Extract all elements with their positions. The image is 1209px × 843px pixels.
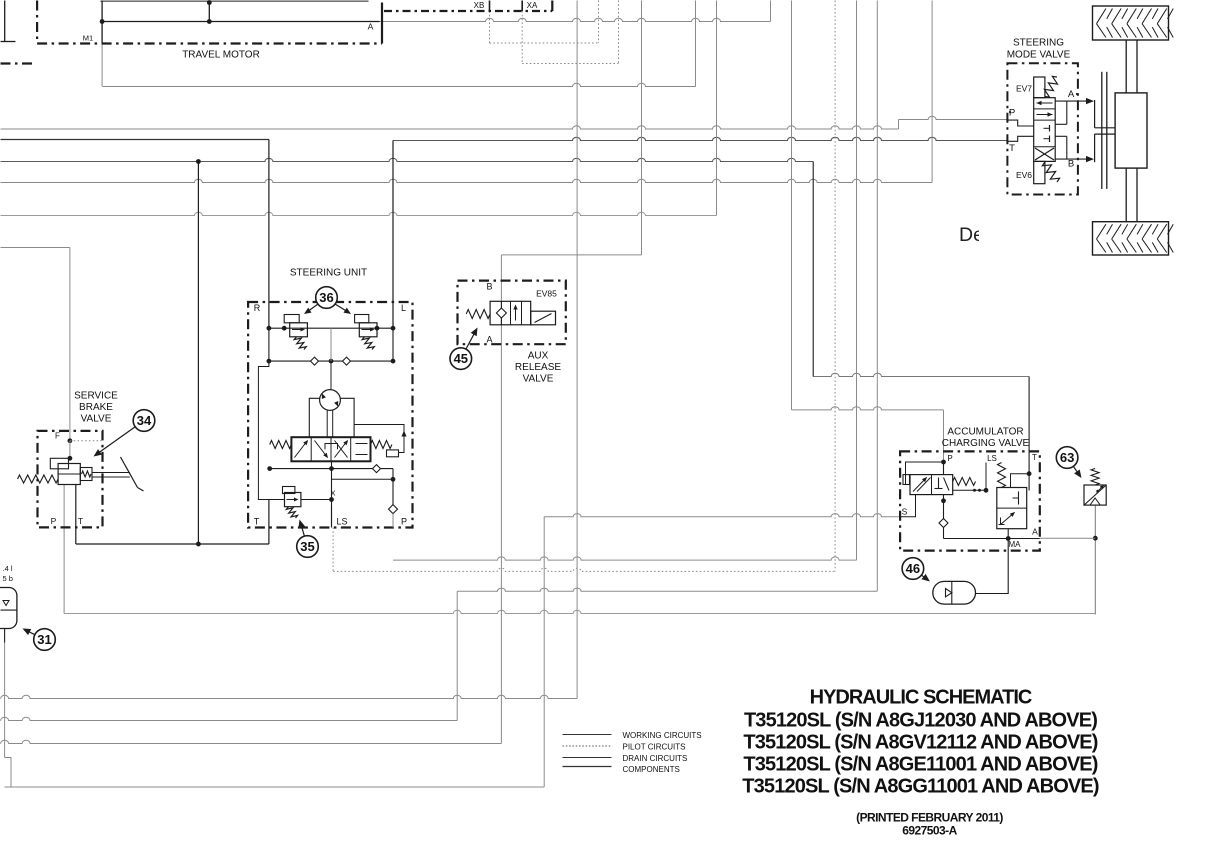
svg-text:P: P (51, 516, 57, 526)
svg-text:A: A (1068, 89, 1075, 100)
svg-text:COMPONENTS: COMPONENTS (623, 765, 680, 774)
svg-text:B: B (1068, 159, 1074, 170)
svg-text:F: F (55, 432, 60, 441)
svg-text:L: L (401, 303, 406, 313)
svg-text:6927503-A: 6927503-A (902, 824, 957, 838)
svg-text:HYDRAULIC SCHEMATIC: HYDRAULIC SCHEMATIC (810, 687, 1032, 709)
svg-text:R: R (254, 303, 261, 313)
svg-text:S: S (902, 507, 908, 517)
svg-text:BRAKE: BRAKE (79, 402, 113, 413)
svg-text:LS: LS (987, 454, 997, 463)
svg-text:T35120SL (S/N A8GV12112 AND AB: T35120SL (S/N A8GV12112 AND ABOVE) (743, 732, 1097, 754)
svg-text:A: A (368, 22, 374, 32)
svg-text:46: 46 (906, 561, 920, 576)
svg-text:31: 31 (37, 632, 51, 647)
svg-text:T35120SL (S/N A8GG11001 AND AB: T35120SL (S/N A8GG11001 AND ABOVE) (742, 776, 1099, 798)
svg-text:X: X (330, 489, 335, 498)
svg-text:MODE VALVE: MODE VALVE (1007, 50, 1071, 61)
svg-text:PILOT CIRCUITS: PILOT CIRCUITS (623, 743, 686, 752)
svg-text:TRAVEL MOTOR: TRAVEL MOTOR (182, 50, 260, 61)
svg-text:T: T (254, 517, 260, 527)
svg-text:CHARGING VALVE: CHARGING VALVE (942, 438, 1030, 449)
svg-text:VALVE: VALVE (81, 414, 112, 425)
svg-text:T35120SL (S/N A8GE11001 AND AB: T35120SL (S/N A8GE11001 AND ABOVE) (743, 754, 1097, 776)
svg-text:RELEASE: RELEASE (515, 362, 561, 373)
svg-text:LS: LS (336, 517, 347, 527)
svg-text:AUX: AUX (528, 351, 549, 362)
svg-text:45: 45 (454, 351, 468, 366)
svg-text:M1: M1 (83, 34, 93, 43)
svg-text:EV85: EV85 (536, 289, 557, 299)
svg-text:XB: XB (474, 1, 485, 10)
svg-text:VALVE: VALVE (523, 374, 554, 385)
svg-text:(PRINTED FEBRUARY 2011): (PRINTED FEBRUARY 2011) (856, 811, 1003, 825)
svg-text:35: 35 (300, 539, 314, 554)
svg-text:STEERING: STEERING (1013, 38, 1064, 49)
svg-text:EV6: EV6 (1016, 170, 1032, 180)
svg-text:T35120SL (S/N A8GJ12030 AND AB: T35120SL (S/N A8GJ12030 AND ABOVE) (744, 710, 1097, 732)
svg-text:34: 34 (137, 413, 152, 428)
svg-text:ACCUMULATOR: ACCUMULATOR (947, 427, 1023, 438)
svg-text:T: T (1032, 453, 1037, 462)
svg-text:XA: XA (527, 1, 538, 10)
svg-text:MA: MA (1009, 540, 1022, 549)
svg-text:WORKING CIRCUITS: WORKING CIRCUITS (623, 731, 702, 740)
svg-text:T: T (1009, 143, 1015, 154)
svg-text:B: B (486, 282, 492, 292)
svg-text:SERVICE: SERVICE (74, 391, 118, 402)
svg-text:5 b: 5 b (3, 574, 13, 583)
svg-text:EV7: EV7 (1016, 84, 1032, 94)
svg-text:DRAIN CIRCUITS: DRAIN CIRCUITS (623, 754, 688, 763)
svg-text:T: T (78, 516, 83, 526)
svg-text:.4 l: .4 l (3, 564, 13, 573)
svg-text:A: A (486, 335, 492, 345)
svg-text:STEERING UNIT: STEERING UNIT (290, 268, 367, 279)
svg-text:P: P (947, 454, 952, 463)
svg-text:63: 63 (1060, 450, 1074, 465)
svg-text:A: A (1032, 527, 1038, 537)
svg-text:P: P (401, 517, 407, 527)
svg-text:36: 36 (319, 290, 333, 305)
